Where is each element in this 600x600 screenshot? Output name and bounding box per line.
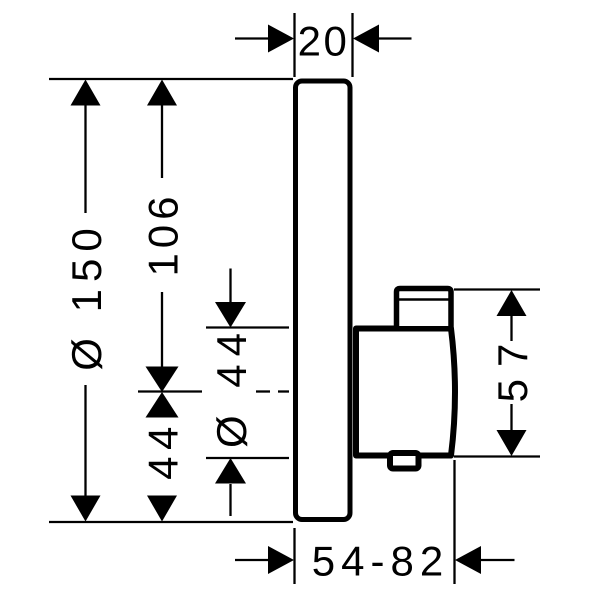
svg-text:106: 106 [140, 191, 187, 276]
svg-text:Ø 150: Ø 150 [63, 221, 110, 370]
svg-text:20: 20 [298, 18, 350, 65]
svg-text:Ø 44: Ø 44 [208, 325, 255, 448]
svg-text:54-82: 54-82 [312, 538, 449, 585]
svg-text:57: 57 [489, 332, 536, 403]
svg-text:44: 44 [140, 420, 187, 480]
